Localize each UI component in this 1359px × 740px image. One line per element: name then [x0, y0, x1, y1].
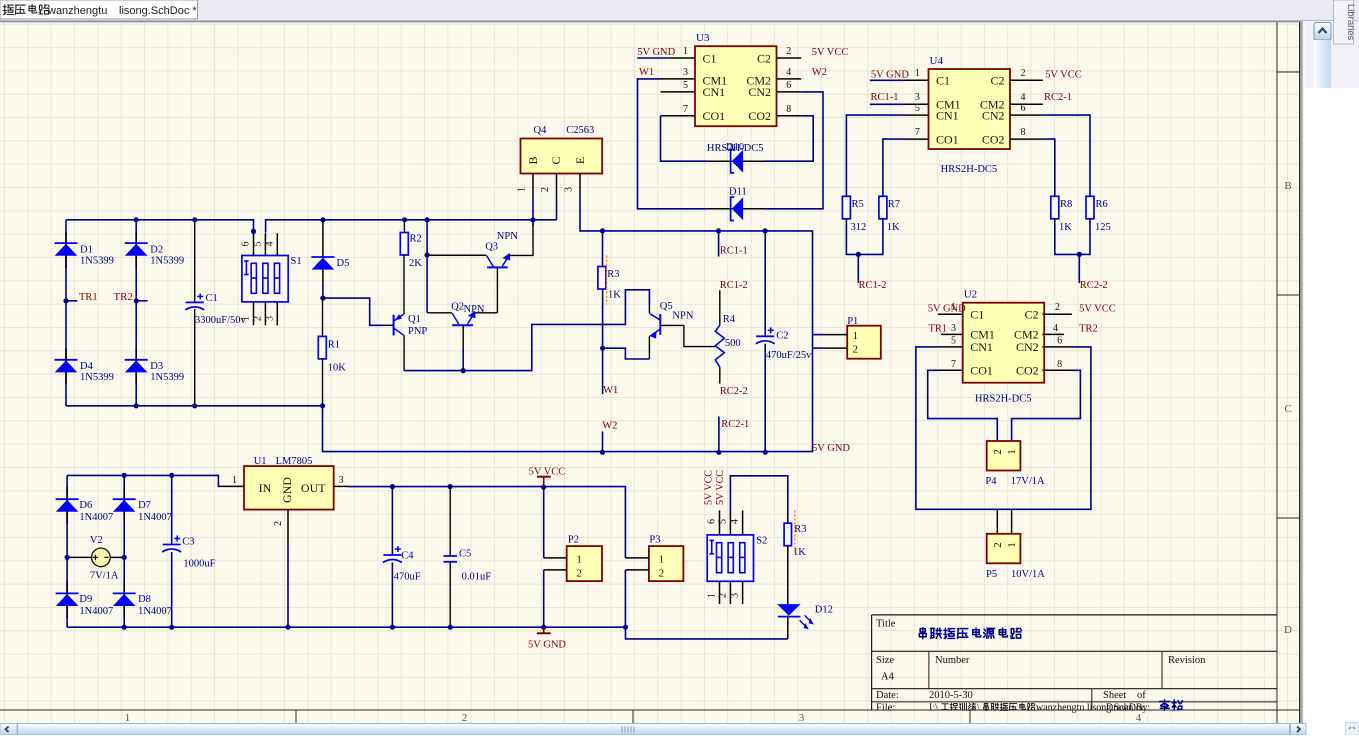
- U3 pin lines left: [661, 58, 696, 116]
- thumb grip: [622, 727, 634, 733]
- svg-text:5V GND: 5V GND: [528, 640, 566, 651]
- U4 pin numbers: [915, 68, 1026, 138]
- svg-text:4: 4: [730, 519, 741, 524]
- svg-text:R5: R5: [852, 199, 864, 210]
- wire R3b to D12: [787, 546, 789, 604]
- svg-text:5V VCC: 5V VCC: [812, 47, 849, 58]
- svg-text:U1: U1: [254, 456, 267, 467]
- svg-text:3: 3: [915, 92, 920, 103]
- node mid bus R3: [600, 228, 605, 233]
- power port 5V VCC: [529, 467, 566, 488]
- svg-text:6: 6: [786, 80, 791, 91]
- svg-text:2: 2: [462, 712, 468, 724]
- svg-text:CO2: CO2: [748, 109, 771, 123]
- svg-text:RC1-1: RC1-1: [871, 92, 899, 103]
- svg-text:1: 1: [517, 187, 528, 192]
- svg-text:Q2: Q2: [451, 302, 464, 313]
- svg-text:7: 7: [951, 359, 956, 370]
- capacitor C1 3300uF/50v: [185, 220, 246, 406]
- wire R3 bottom to W1: [602, 289, 604, 394]
- diode D2 1N5399: [125, 232, 184, 269]
- svg-text:Q4: Q4: [534, 125, 548, 136]
- svg-text:1: 1: [915, 68, 920, 79]
- node top bus Q2 branch: [425, 217, 430, 222]
- svg-text:3: 3: [339, 475, 344, 486]
- svg-text:10K: 10K: [328, 362, 347, 373]
- svg-text:1: 1: [659, 553, 665, 565]
- U2 pin lines right: [1042, 314, 1072, 370]
- svg-text:CO2: CO2: [982, 132, 1005, 146]
- svg-text:5V VCC: 5V VCC: [529, 467, 566, 478]
- wire Q2 base down: [462, 325, 464, 348]
- wire bridge bottom bus: [66, 405, 323, 407]
- wire 5VGND bus: [323, 335, 813, 453]
- node D5/R1 junction: [320, 296, 325, 301]
- svg-text:D3: D3: [150, 361, 163, 372]
- wire top bus right segment: [266, 220, 557, 233]
- svg-text:C: C: [1284, 403, 1291, 415]
- regulator U1 LM7805: [244, 456, 334, 510]
- svg-text:P2: P2: [568, 535, 579, 546]
- wire bus to Q2/Q3: [426, 220, 428, 313]
- svg-text:3: 3: [683, 67, 688, 78]
- svg-text:1N5399: 1N5399: [150, 372, 184, 383]
- svg-text:2: 2: [853, 343, 859, 355]
- svg-text:2: 2: [786, 46, 791, 57]
- node Q2 base junction: [461, 368, 466, 373]
- svg-text:R8: R8: [1060, 199, 1072, 210]
- diode D3 1N5399: [125, 348, 184, 384]
- horizontal scrollbar left arrow: [0, 724, 17, 736]
- svg-text:1: 1: [241, 316, 252, 321]
- svg-text:RC2-2: RC2-2: [1080, 280, 1108, 291]
- source V2 7V/1A: [67, 535, 124, 582]
- svg-text:S2: S2: [756, 536, 767, 547]
- svg-text:2: 2: [252, 316, 263, 321]
- svg-text:1K: 1K: [608, 290, 621, 301]
- wire RC2-2 stub: [1078, 254, 1080, 283]
- svg-text:CN1: CN1: [936, 108, 959, 122]
- transistor block Q4 C2563: [521, 125, 603, 174]
- svg-text:2: 2: [992, 542, 1004, 548]
- node rail C3: [169, 473, 174, 478]
- svg-text:CO1: CO1: [703, 109, 726, 123]
- svg-text:5V VCC: 5V VCC: [1079, 303, 1116, 314]
- svg-text:D1: D1: [80, 245, 93, 256]
- svg-text:8: 8: [1021, 127, 1026, 138]
- svg-text:I:\: I:\: [929, 703, 938, 714]
- svg-text:\: \: [977, 703, 980, 714]
- svg-text:2: 2: [576, 567, 582, 579]
- svg-text:6: 6: [241, 242, 252, 247]
- svg-text:Q5: Q5: [660, 301, 673, 312]
- svg-text:4: 4: [1021, 92, 1026, 103]
- svg-text:3: 3: [264, 316, 275, 321]
- svg-text:HRS2H-DC5: HRS2H-DC5: [975, 393, 1032, 404]
- svg-text:5V VCC: 5V VCC: [1045, 69, 1082, 80]
- node gnd2 D8: [122, 625, 127, 630]
- svg-text:D9: D9: [79, 594, 92, 605]
- svg-text:Sheet: Sheet: [1103, 690, 1126, 701]
- svg-text:S1: S1: [291, 256, 302, 267]
- capacitor C5 0.01uF: [444, 487, 492, 628]
- svg-text:6: 6: [1057, 336, 1062, 347]
- node RC1-2: [856, 252, 861, 257]
- svg-text:C3: C3: [182, 537, 194, 548]
- node gnd2 C3: [169, 625, 174, 630]
- node TR2: [134, 298, 148, 303]
- svg-text:CN2: CN2: [982, 108, 1005, 122]
- node rail C5: [448, 484, 453, 489]
- svg-text:TR1: TR1: [79, 292, 98, 303]
- svg-text:Date:: Date:: [876, 690, 899, 701]
- svg-text:of: of: [1137, 690, 1146, 701]
- relay U2 HRS2H-DC5: [963, 289, 1044, 383]
- node R1 bottom: [320, 403, 325, 408]
- wire Q2 collector: [427, 312, 452, 314]
- transistor Q2 NPN: [451, 302, 485, 326]
- svg-text:C1: C1: [206, 293, 218, 304]
- S2 pins top: [720, 510, 743, 535]
- svg-text:Q1: Q1: [408, 314, 421, 325]
- svg-text:1N4007: 1N4007: [79, 512, 113, 523]
- svg-text:1K: 1K: [1059, 222, 1072, 233]
- connector P4 17V/1A: [985, 441, 1045, 487]
- svg-text:4: 4: [1136, 712, 1142, 724]
- sheet right shadow: [1300, 21, 1303, 724]
- U1 pin2 wire: [287, 510, 289, 546]
- svg-text:C2: C2: [757, 51, 771, 65]
- svg-text:D2: D2: [150, 245, 163, 256]
- wire U4 pin6 to R6: [1043, 115, 1090, 196]
- wire P2 pin2 gnd: [543, 570, 545, 627]
- svg-text:C: C: [549, 156, 563, 164]
- horizontal scrollbar right arrow: [1291, 724, 1307, 736]
- wire P2 drop: [543, 487, 545, 558]
- svg-text:C1: C1: [970, 308, 984, 322]
- node bottom bus D3: [134, 403, 139, 408]
- svg-text:NPN: NPN: [672, 311, 693, 322]
- wire RC2-1 stub: [718, 417, 720, 453]
- svg-text:NPN: NPN: [464, 304, 485, 315]
- wire D12 return: [787, 616, 789, 639]
- svg-text:1N4007: 1N4007: [138, 606, 172, 617]
- title block: [872, 614, 1277, 616]
- right panel background: [1305, 21, 1359, 88]
- drawn by name: [1160, 700, 1170, 710]
- node rail C4: [390, 484, 395, 489]
- svg-text:File:: File:: [876, 703, 895, 714]
- svg-text:1: 1: [707, 593, 718, 598]
- svg-text:Number: Number: [935, 655, 970, 666]
- svg-text:B: B: [1284, 180, 1291, 192]
- wire left bridge vertical: [65, 220, 67, 406]
- svg-text:2: 2: [1021, 68, 1026, 79]
- resistor R8 1K: [1051, 196, 1072, 233]
- svg-text:5: 5: [683, 80, 688, 91]
- svg-text:5V GND: 5V GND: [637, 47, 675, 58]
- wire R2 to Q1 emitter: [403, 255, 405, 314]
- diode D9 1N4007: [56, 581, 114, 618]
- wire P5 pins: [996, 509, 998, 534]
- U3 pin1 net wire: [637, 57, 670, 59]
- wire U3 pin3 W1: [638, 79, 708, 209]
- svg-text:1N5399: 1N5399: [80, 372, 114, 383]
- svg-text:D7: D7: [138, 500, 151, 511]
- svg-text:7: 7: [915, 127, 920, 138]
- svg-text:C2563: C2563: [566, 125, 594, 136]
- S1 pin numbers: [241, 242, 276, 322]
- wire R5R7 join: [846, 219, 883, 255]
- svg-text:CN2: CN2: [748, 85, 771, 99]
- svg-text:6: 6: [1021, 103, 1026, 114]
- Q4 pin1 wire: [532, 174, 534, 199]
- svg-text:3: 3: [730, 593, 741, 598]
- svg-text:D5: D5: [337, 258, 350, 269]
- svg-text:PNP: PNP: [408, 326, 427, 337]
- U4 pin lines left: [904, 80, 929, 139]
- svg-text:RC1-2: RC1-2: [720, 280, 748, 291]
- svg-text:Revision: Revision: [1168, 655, 1206, 666]
- capacitor C4 470uF: [383, 487, 421, 628]
- vertical scrollbar thumb: [1314, 40, 1331, 88]
- wire U4 pin5 to R5: [846, 115, 903, 196]
- node V2 left: [65, 555, 70, 560]
- node bus Q4pin1: [530, 217, 535, 222]
- svg-text:3300uF/50v: 3300uF/50v: [195, 315, 247, 326]
- wire W2 stub: [602, 431, 604, 452]
- node bus S1 pin6: [251, 229, 256, 234]
- node top bus C1: [192, 217, 197, 222]
- svg-text:R6: R6: [1096, 199, 1108, 210]
- node mid bus C2: [763, 228, 768, 233]
- wire Q3 emitter to bus: [510, 220, 534, 256]
- svg-text:4: 4: [264, 242, 275, 247]
- svg-text:1K: 1K: [887, 222, 900, 233]
- svg-text:1: 1: [232, 475, 237, 486]
- diode D11: [707, 197, 764, 220]
- svg-text:R3: R3: [794, 524, 806, 535]
- svg-text:W1: W1: [603, 385, 618, 396]
- U4 pin lines right: [1010, 80, 1043, 139]
- svg-text:Size: Size: [876, 655, 894, 666]
- svg-text:C4: C4: [401, 551, 414, 562]
- svg-text:312: 312: [851, 222, 867, 233]
- svg-text:1: 1: [1006, 449, 1018, 455]
- svg-text:C5: C5: [459, 549, 471, 560]
- svg-text:5: 5: [252, 242, 263, 247]
- P1 pin wires: [822, 334, 847, 336]
- svg-text:TR2: TR2: [1079, 323, 1098, 334]
- wire bridge2 bottom rail: [67, 626, 625, 628]
- transistor Q5 NPN mirrored: [649, 301, 694, 339]
- connector P1: [847, 316, 881, 359]
- svg-text:C1: C1: [936, 74, 950, 88]
- Q4 pin numbers: [517, 187, 575, 192]
- svg-text:TR2: TR2: [113, 291, 133, 303]
- P2 pin wires: [544, 557, 567, 559]
- svg-text:1N5399: 1N5399: [150, 256, 184, 267]
- svg-text:Title: Title: [876, 619, 896, 630]
- node bottom bus C1: [192, 403, 197, 408]
- svg-text:RC2-2: RC2-2: [720, 386, 748, 397]
- svg-text:4: 4: [1053, 323, 1058, 334]
- node gnd bus RC2-1: [716, 450, 721, 455]
- wire mid bus: [603, 231, 813, 335]
- svg-text:V2: V2: [90, 535, 103, 546]
- svg-text:7V/1A: 7V/1A: [90, 571, 119, 582]
- wire Q1 collector down: [403, 335, 405, 370]
- svg-text:D4: D4: [80, 361, 94, 372]
- resistor R7 1K: [879, 196, 900, 233]
- svg-text:R3: R3: [607, 269, 619, 280]
- active document tab: [0, 0, 198, 19]
- tab text: [3, 5, 13, 15]
- svg-text:R2: R2: [410, 234, 422, 245]
- svg-text:U4: U4: [930, 55, 944, 67]
- selection highlight R3: [606, 256, 608, 305]
- svg-text:A4: A4: [881, 672, 895, 683]
- node top bus D2: [134, 217, 139, 222]
- resistor R2 2K: [400, 220, 422, 269]
- node mid bus RC1-1: [716, 228, 721, 233]
- wire U2 pin7 to P4: [928, 370, 998, 441]
- svg-text:B: B: [526, 156, 540, 164]
- wire to Q3 collector: [427, 254, 486, 256]
- wire bridge2 top rail: [67, 475, 219, 486]
- diode D8 1N4007: [113, 581, 172, 618]
- wire D5 to Q1 base: [323, 284, 382, 325]
- svg-text:C2: C2: [776, 331, 788, 342]
- S2 pin numbers: [707, 519, 741, 598]
- svg-text:D8: D8: [138, 594, 151, 605]
- svg-text:3: 3: [951, 323, 956, 334]
- svg-text:NPN: NPN: [497, 231, 518, 242]
- svg-text:470uF/25v: 470uF/25v: [766, 350, 812, 361]
- wire U3 pin6 to D11: [765, 92, 824, 209]
- svg-text:4: 4: [786, 67, 791, 78]
- node rail VCC port: [541, 485, 546, 490]
- svg-text:CN2: CN2: [1016, 340, 1039, 354]
- switch S2: [707, 535, 767, 581]
- capacitor C3 1000uF: [162, 475, 215, 627]
- svg-text:D6: D6: [79, 500, 92, 511]
- svg-text:470uF: 470uF: [394, 572, 421, 583]
- diode D10: [707, 150, 764, 173]
- svg-text:500: 500: [725, 338, 741, 349]
- horizontal scrollbar thumb: [18, 724, 1290, 736]
- transistor Q1 PNP: [394, 314, 428, 337]
- svg-text:8: 8: [786, 104, 791, 115]
- svg-text:17V/1A: 17V/1A: [1011, 476, 1045, 487]
- svg-text:5V VCC: 5V VCC: [715, 470, 726, 505]
- svg-text:1: 1: [125, 712, 131, 724]
- svg-text:Q3: Q3: [485, 242, 498, 253]
- svg-text:7: 7: [683, 104, 688, 115]
- svg-text:10V/1A: 10V/1A: [1011, 569, 1045, 580]
- wire S2 pin5 to R3b: [730, 476, 787, 523]
- svg-text:C1: C1: [703, 51, 717, 65]
- svg-text:2K: 2K: [409, 258, 422, 269]
- svg-text:5V VCC: 5V VCC: [704, 470, 715, 505]
- resistor R3b 1K: [784, 523, 806, 558]
- svg-text:RC1-1: RC1-1: [720, 246, 748, 257]
- svg-text:125: 125: [1095, 222, 1111, 233]
- svg-text:TR1: TR1: [929, 323, 948, 334]
- svg-text:W1: W1: [639, 67, 654, 78]
- node top bus D5: [320, 217, 325, 222]
- wire Q5 emitter staircase: [648, 336, 650, 359]
- connector P2: [567, 535, 602, 582]
- relay U4 HRS2H-DC5: [929, 55, 1011, 149]
- wire U2 pin8 to P4: [1012, 370, 1081, 441]
- svg-text:5V GND: 5V GND: [928, 303, 966, 314]
- svg-text:R4: R4: [723, 314, 736, 325]
- svg-text:Libraries: Libraries: [1345, 4, 1356, 41]
- svg-text:2: 2: [273, 521, 284, 526]
- resistor R1 10K: [318, 298, 346, 406]
- svg-text:2: 2: [717, 593, 728, 598]
- svg-text:P1: P1: [847, 316, 858, 327]
- svg-text:6: 6: [707, 519, 718, 524]
- node TR1: [63, 298, 77, 303]
- wire Q2 emitter to Q3 base: [474, 312, 498, 314]
- svg-text:1: 1: [683, 46, 688, 57]
- switch S1: [242, 256, 302, 302]
- wire U4 pin8 to R8: [1043, 139, 1055, 196]
- svg-text:LM7805: LM7805: [276, 456, 313, 467]
- node gnd2 C5: [448, 625, 453, 630]
- svg-text:2010-5-30: 2010-5-30: [929, 690, 973, 701]
- svg-text:8: 8: [1057, 359, 1062, 370]
- svg-text:HRS2H-DC5: HRS2H-DC5: [941, 164, 998, 175]
- wire RC1-2 stub: [857, 254, 859, 283]
- svg-text:1N4007: 1N4007: [138, 512, 172, 523]
- svg-text:GND: GND: [280, 477, 294, 503]
- svg-text:Drawn By:: Drawn By:: [1106, 703, 1150, 714]
- svg-text:D: D: [1284, 624, 1292, 636]
- U1 pin1 wire: [219, 485, 244, 487]
- svg-text:5V GND: 5V GND: [871, 69, 909, 80]
- svg-text:5: 5: [717, 519, 728, 524]
- U4 pin3 net wire: [870, 103, 904, 105]
- node rail D7: [122, 473, 127, 478]
- svg-text:CN1: CN1: [703, 85, 726, 99]
- node W1 junction: [600, 346, 605, 351]
- bottom right corner widget: [1346, 723, 1359, 736]
- node R2Q3 junction: [425, 252, 430, 257]
- svg-text:1: 1: [1006, 542, 1018, 548]
- transistor Q3 NPN: [485, 231, 518, 267]
- node V2 right: [122, 555, 127, 560]
- diode D5: [311, 220, 349, 284]
- svg-text:U2: U2: [964, 289, 977, 301]
- svg-text:1000uF: 1000uF: [183, 559, 215, 570]
- wire bridge2 mid vertical: [123, 475, 125, 627]
- node gnd bus W2: [600, 450, 605, 455]
- diode D1 1N5399: [55, 232, 114, 269]
- connector P5 10V/1A: [986, 534, 1045, 580]
- svg-text:RC2-1: RC2-1: [1044, 92, 1072, 103]
- svg-text:CN1: CN1: [970, 340, 993, 354]
- svg-text:5: 5: [915, 103, 920, 114]
- svg-text:2: 2: [992, 449, 1004, 455]
- relay U3 HRS2H-DC5: [695, 32, 777, 126]
- wire U3 pin7 to D10: [661, 116, 708, 161]
- svg-text:R1: R1: [328, 340, 340, 351]
- node gnd2 U1: [285, 625, 290, 630]
- svg-text:2: 2: [1055, 302, 1060, 313]
